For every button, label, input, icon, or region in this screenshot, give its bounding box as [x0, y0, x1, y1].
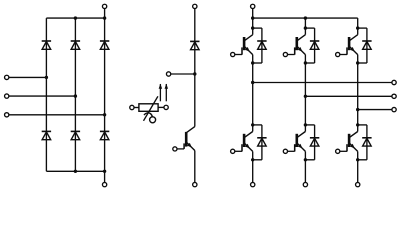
wire AC input 2 [9, 95, 76, 97]
wire thermistor right lead [158, 106, 164, 108]
wire leg 3 emitter to terminal [357, 151, 359, 182]
junction top bus / leg 2 [74, 16, 77, 19]
wire top unit 1 collector bar [253, 27, 262, 29]
wire bottom unit 1 collector bar [253, 124, 262, 126]
wire AC input 3 [9, 114, 105, 116]
terminal emitter 3 [356, 182, 360, 186]
diode D2 [42, 131, 51, 139]
wire bottom unit 3 collector bar [358, 124, 367, 126]
terminal phase output 2 [392, 94, 396, 98]
wire top unit 3 diode branch [366, 28, 368, 63]
junction phase 1 tap [251, 81, 254, 84]
wire leg 2 collector feed [304, 18, 306, 35]
diode D9 [310, 41, 319, 49]
wire phase output 1 [253, 82, 392, 84]
diode D11 [257, 138, 266, 146]
transistor Q4 [287, 132, 305, 152]
wire top unit 3 emitter bar [358, 62, 367, 64]
transistor Q5 [340, 35, 358, 55]
gate terminal of transistor Q2 [231, 149, 235, 153]
junction bottom bus / leg 2 [74, 170, 77, 173]
wire top unit 2 diode branch [314, 28, 316, 63]
thermistor heat arrow 2 [165, 84, 169, 102]
wire thermistor left lead [134, 107, 139, 109]
wire leg 1 emitter to terminal [252, 151, 254, 182]
wire phase output 3 [358, 109, 392, 111]
junction bottom unit 1 collector [251, 123, 254, 126]
diode D8 [257, 41, 266, 49]
diode D7 brake [190, 41, 199, 49]
diode D5 [100, 41, 109, 49]
junction DC+ bus / leg 2 [304, 16, 307, 19]
diode D3 [71, 41, 80, 49]
wire leg 2 midpoint [304, 55, 306, 132]
terminal brake DC- stub [166, 72, 170, 76]
wire leg 1 midpoint [252, 55, 254, 132]
diode D13 [362, 138, 371, 146]
transistor Q1 [235, 35, 253, 55]
wire bottom unit 2 emitter bar [305, 159, 314, 161]
diode D10 [362, 41, 371, 49]
wire brake emitter bus [194, 151, 196, 183]
terminal emitter 1 [251, 182, 255, 186]
terminal brake bottom [193, 182, 197, 186]
gate terminal of Q7 [173, 147, 177, 151]
junction top unit 1 emitter [251, 61, 254, 64]
wire bottom unit 3 emitter bar [358, 159, 367, 161]
wire brake collector bus [194, 8, 196, 126]
terminal AC input 3 [5, 113, 9, 117]
junction top unit 2 emitter [304, 61, 307, 64]
wire leg 3 midpoint [357, 55, 359, 132]
junction bottom unit 2 emitter [304, 158, 307, 161]
wire top unit 2 emitter bar [305, 62, 314, 64]
diode D12 [310, 138, 319, 146]
junction top bus / leg 3 [103, 16, 106, 19]
wire top unit 2 collector bar [305, 27, 314, 29]
junction phase 3 tap [356, 108, 359, 111]
terminal phase output 1 [392, 80, 396, 84]
wire top unit 1 diode branch [261, 28, 263, 63]
gate terminal of transistor Q4 [283, 149, 287, 153]
wire rectifier leg 3 with terminal stubs [104, 8, 106, 182]
junction top unit 2 collector [304, 26, 307, 29]
junction AC input 3 / leg 3 [103, 113, 106, 116]
gate terminal of transistor Q3 [283, 52, 287, 56]
wire bottom unit 1 diode branch [261, 125, 263, 160]
junction top unit 3 emitter [356, 61, 359, 64]
junction phase 2 tap [304, 95, 307, 98]
wire brake DC- stub [171, 73, 195, 75]
junction DC+ bus / leg 1 [251, 16, 254, 19]
wire inverter DC+ bus [253, 17, 358, 19]
diode D4 [71, 131, 80, 139]
wire top unit 3 collector bar [358, 27, 367, 29]
junction brake stub / bus [193, 72, 196, 75]
wire phase output 2 [305, 95, 392, 97]
terminal AC input 2 [5, 94, 9, 98]
junction AC input 2 / leg 2 [74, 94, 77, 97]
junction top unit 3 collector [356, 26, 359, 29]
wire rectifier DC- bottom bus [46, 170, 104, 172]
transistor Q6 [340, 132, 358, 152]
gate terminal of transistor Q1 [231, 52, 235, 56]
terminal rectifier DC- [102, 182, 106, 186]
wire bottom unit 2 diode branch [314, 125, 316, 160]
gate terminal of transistor Q5 [336, 52, 340, 56]
transistor Q2 [235, 132, 253, 152]
junction bottom unit 2 collector [304, 123, 307, 126]
wire top unit 1 emitter bar [253, 62, 262, 64]
wire bottom unit 1 emitter bar [253, 159, 262, 161]
junction AC input 1 / leg 1 [45, 76, 48, 79]
wire leg 1 collector feed [252, 8, 254, 34]
terminal inverter DC+ [251, 4, 255, 8]
wire AC input 1 [9, 76, 47, 78]
wire rectifier leg 2 [74, 18, 76, 171]
terminal emitter 2 [303, 182, 307, 186]
wire leg 2 emitter to terminal [304, 151, 306, 182]
terminal brake top [193, 4, 197, 8]
terminal AC input 1 [5, 75, 9, 79]
diode D1 [42, 41, 51, 49]
thermistor R1 body [139, 104, 158, 112]
junction bottom unit 3 collector [356, 123, 359, 126]
wire rectifier leg 1 [45, 18, 47, 171]
wire leg 3 collector feed [357, 18, 359, 35]
junction bottom bus / leg 3 [103, 170, 106, 173]
wire rectifier DC+ top bus [46, 17, 104, 19]
gate terminal of transistor Q6 [336, 149, 340, 153]
junction bottom unit 1 emitter [251, 158, 254, 161]
junction top unit 1 collector [251, 26, 254, 29]
terminal phase output 3 [392, 107, 396, 111]
wire bottom unit 3 diode branch [366, 125, 368, 160]
junction bottom unit 3 emitter [356, 158, 359, 161]
diode D6 [100, 131, 109, 139]
wire bottom unit 2 collector bar [305, 124, 314, 126]
thermistor diagonal stroke [144, 96, 158, 121]
transistor Q3 [287, 35, 305, 55]
transistor Q7 brake IGBT [177, 127, 195, 151]
thermistor heat arrow 1 [159, 84, 163, 102]
thermistor theta symbol [144, 113, 156, 123]
terminal thermistor right [164, 105, 168, 109]
terminal thermistor left [130, 105, 134, 109]
terminal rectifier DC+ [102, 4, 106, 8]
